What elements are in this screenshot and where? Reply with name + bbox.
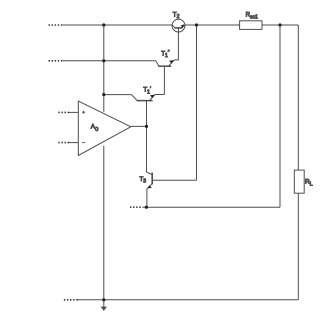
wire: op-amp output <box>131 125 147 127</box>
transistor T1' <box>132 95 155 127</box>
wire: T1' collector wire from supply branch <box>104 94 132 96</box>
resistor Rsc1 <box>240 21 262 30</box>
svg-text:T2: T2 <box>173 11 180 20</box>
transistor T3 <box>147 172 197 207</box>
node: top rail / supply branch <box>102 23 105 26</box>
node: op-amp output junction <box>145 125 148 128</box>
transistor T2 <box>172 19 185 32</box>
svg-text:Rsc1: Rsc1 <box>246 12 258 21</box>
wire: bottom rail dotted lead <box>64 299 79 301</box>
svg-text:A0: A0 <box>91 123 99 133</box>
wire: T1'' collector rail <box>61 60 156 62</box>
resistor RL <box>294 170 304 193</box>
node: output rail / T3 emitter <box>145 206 148 209</box>
svg-text:T3: T3 <box>140 176 147 185</box>
wire: top rail to T2 <box>61 24 172 26</box>
wire: output rail <box>143 206 281 208</box>
wire: T3 base up to sense node <box>196 25 198 180</box>
wire: op-amp bottom supply to ground rail <box>103 146 105 300</box>
wire: output rail dotted lead <box>130 206 143 208</box>
wire: bottom rail <box>78 299 299 301</box>
wire: output rail up to Rsc1 right node <box>279 25 281 207</box>
wire: op-amp - input dotted lead <box>58 142 69 144</box>
transistor T1'' <box>156 60 175 95</box>
wire: op-amp + input <box>69 111 78 113</box>
wire: T2 base down to T1'' emitter <box>174 32 178 60</box>
svg-text:T1′: T1′ <box>143 87 151 96</box>
node: ground rail junction <box>102 298 105 301</box>
wire: RL to bottom rail <box>297 193 299 300</box>
node: output node right of Rsc1 <box>278 23 281 26</box>
ground <box>101 300 107 311</box>
wire: op-amp + input dotted lead <box>58 111 69 113</box>
node: T1'' collector junction <box>102 59 105 62</box>
wire: right edge down to RL <box>297 25 299 170</box>
op-amp A0 <box>78 101 131 156</box>
wire: op-amp - input <box>69 142 78 144</box>
wire: vertical supply branch from top rail to op-amp top <box>103 25 105 112</box>
wire: T1'' collector rail dotted lead <box>49 60 63 62</box>
wire: top rail dotted lead <box>49 24 63 26</box>
wire: drive node vertical (op-amp out to T3 collector) <box>146 126 148 172</box>
wire: T1' emitter to T1'' base <box>155 94 164 96</box>
svg-text:RL: RL <box>305 178 313 187</box>
node: sense node left of Rsc1 <box>195 23 198 26</box>
wire: T2 to Rsc1 <box>185 24 240 26</box>
node: T1' collector junction <box>102 93 105 96</box>
svg-text:T1″: T1″ <box>161 50 170 59</box>
wire: Rsc1 to right corner <box>262 24 298 26</box>
